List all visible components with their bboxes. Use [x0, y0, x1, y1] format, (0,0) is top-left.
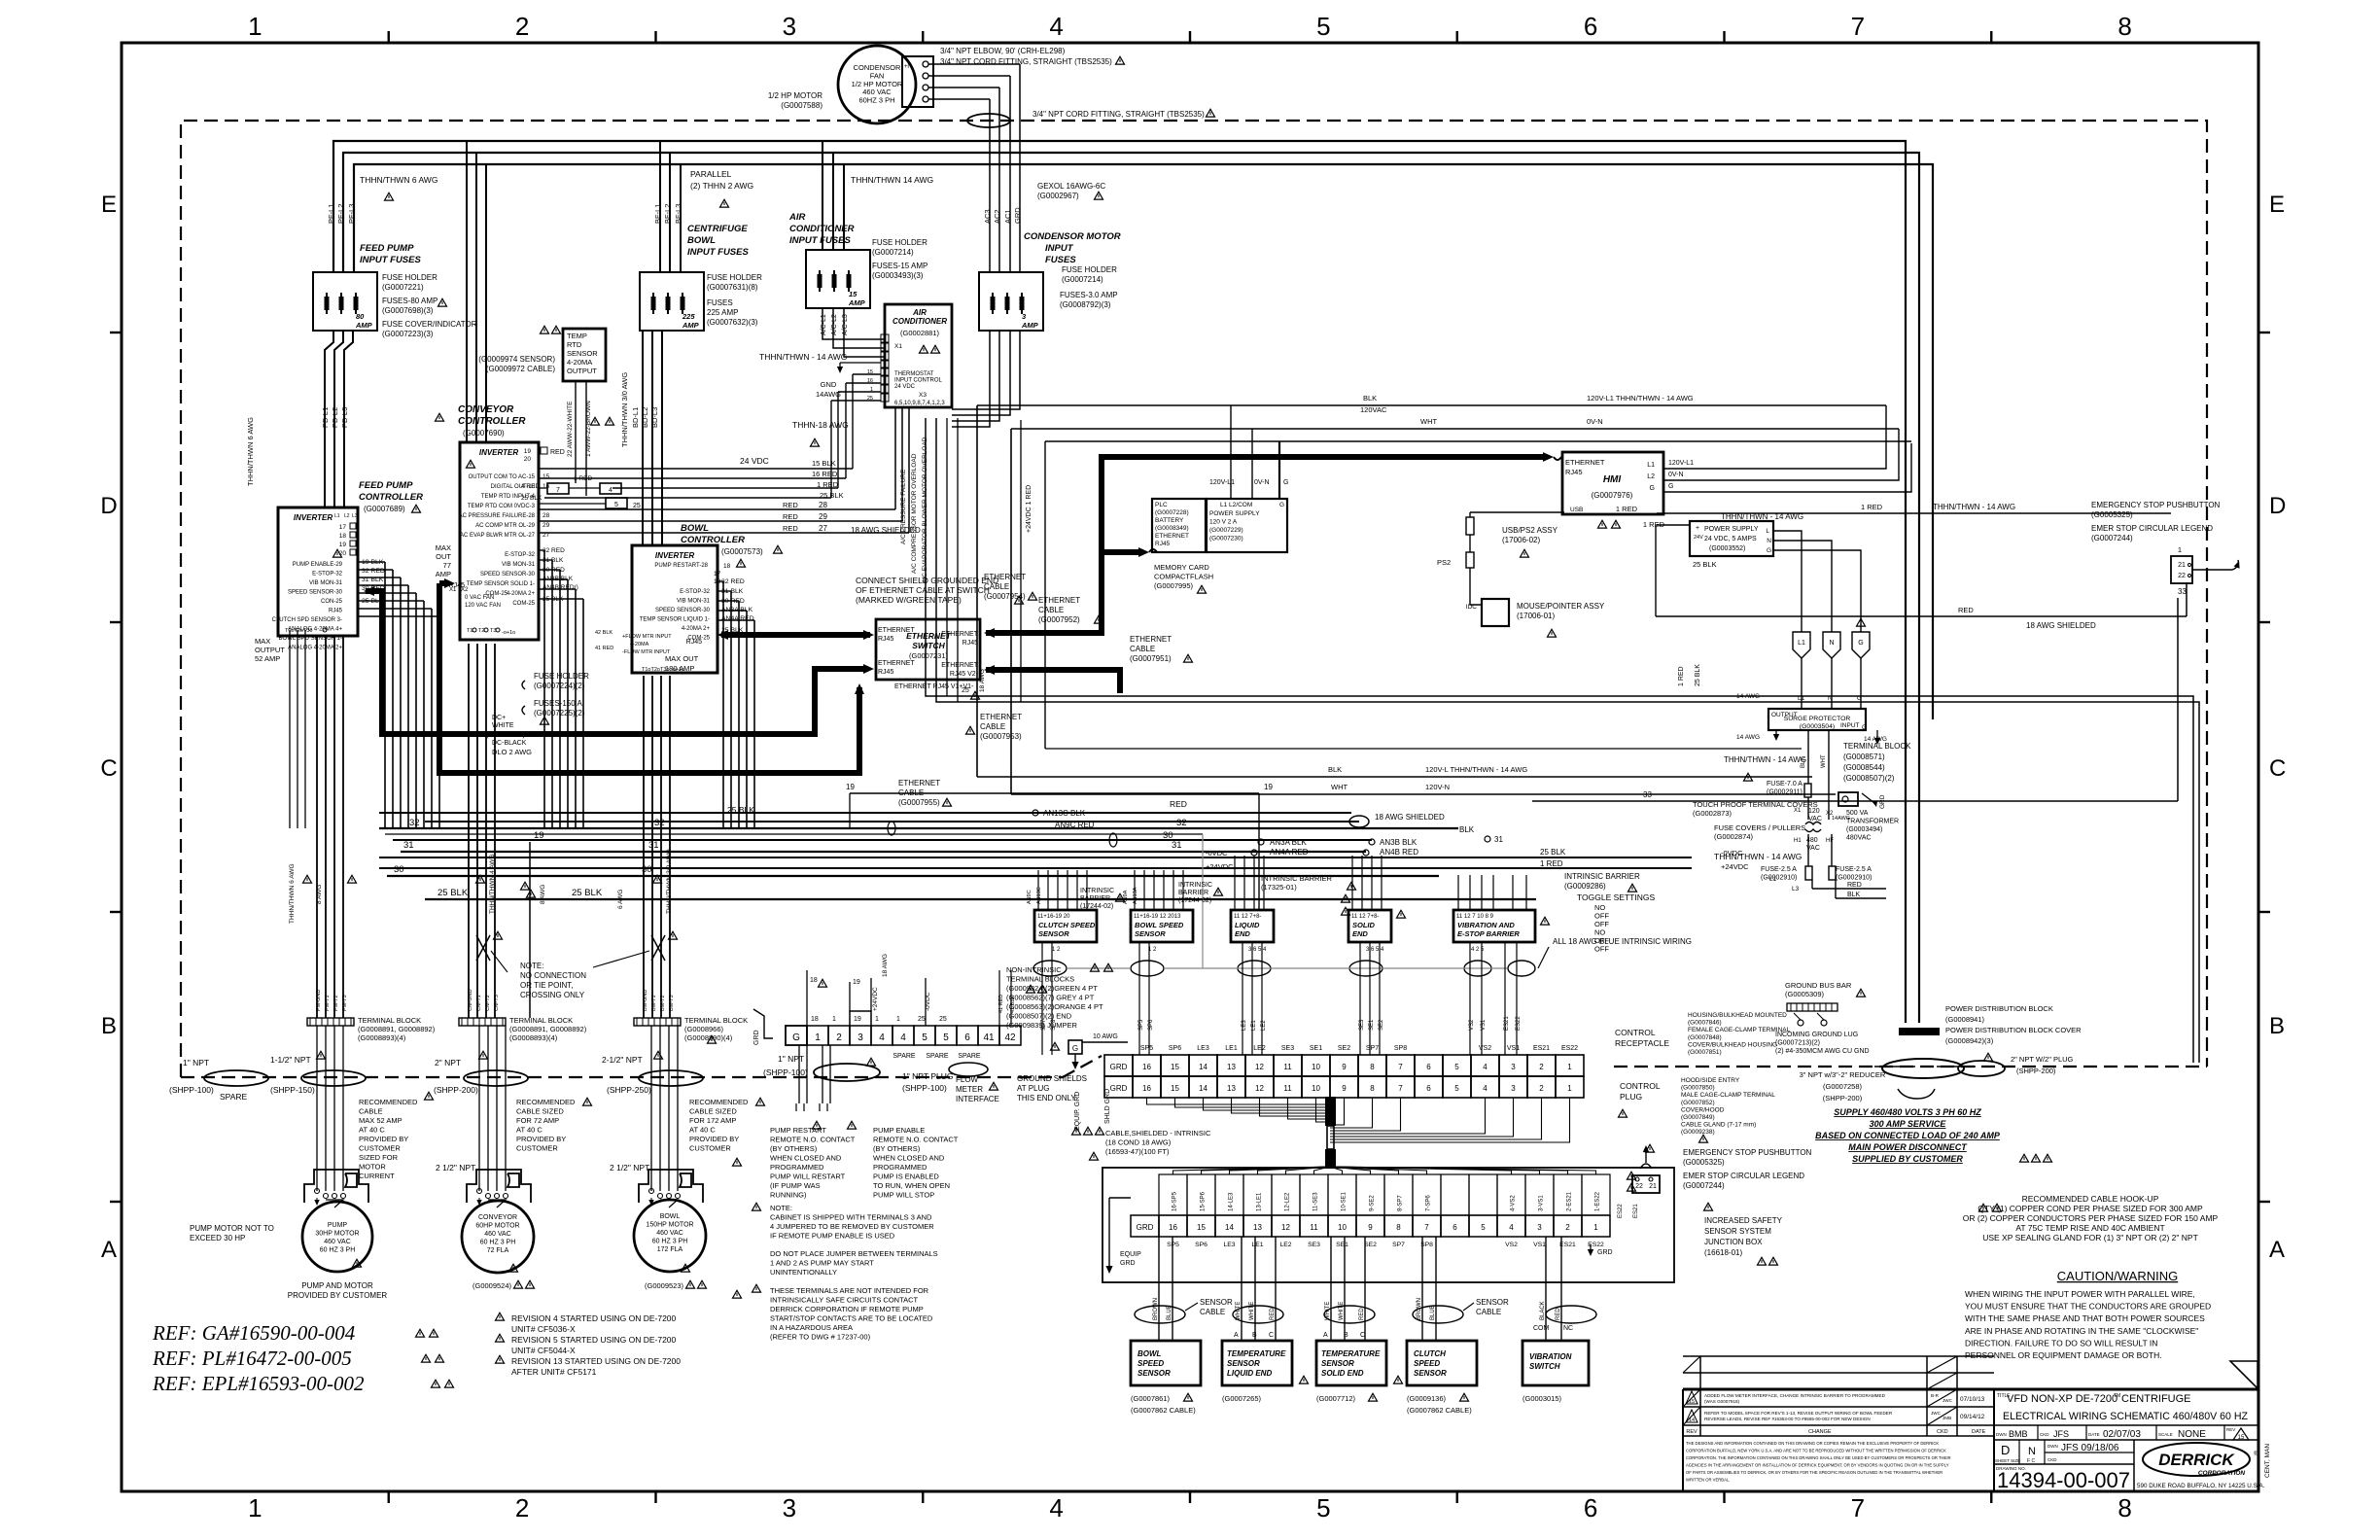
svg-text:(G0007229): (G0007229): [1209, 527, 1243, 534]
svg-text:T1oT2oT3o -o+1o: T1oT2oT3o -o+1o: [642, 667, 684, 673]
svg-text:2-1/2" NPT: 2-1/2" NPT: [602, 1055, 643, 1065]
svg-text:31: 31: [1494, 835, 1503, 844]
svg-text:SP7: SP7: [1392, 1242, 1405, 1248]
svg-text:OR (2) COPPER CONDUCTORS PER P: OR (2) COPPER CONDUCTORS PER PHASE SIZED…: [1963, 1213, 2219, 1223]
svg-text:VIB MON-31: VIB MON-31: [502, 562, 536, 568]
svg-text:INPUT FUSES: INPUT FUSES: [687, 247, 749, 258]
svg-text:SPARE: SPARE: [926, 1053, 949, 1060]
svg-text:1 RED: 1 RED: [1678, 666, 1685, 686]
svg-text:CORPORATION: CORPORATION: [2198, 1470, 2246, 1477]
wire RTD leads: [575, 381, 577, 483]
svg-text:FUSES: FUSES: [707, 298, 733, 307]
wire condenser fuse outputs: [952, 331, 990, 427]
svg-text:JFS 09/18/06: JFS 09/18/06: [2061, 1443, 2119, 1453]
svg-text:4-20MA: 4-20MA: [630, 642, 649, 647]
svg-text:(G0008893)(4): (G0008893)(4): [358, 1033, 406, 1042]
svg-text:RJ45: RJ45: [329, 609, 343, 614]
svg-text:(G0007976): (G0007976): [1592, 491, 1633, 500]
svg-text:AC PRESSURE FAILURE-28: AC PRESSURE FAILURE-28: [459, 513, 536, 519]
svg-text:2" NPT: 2" NPT: [435, 1058, 461, 1067]
svg-text:5: 5: [922, 1032, 927, 1043]
svg-text:(G0003015): (G0003015): [1522, 1394, 1562, 1403]
svg-text:REV: REV: [2226, 1427, 2235, 1432]
feed pump controller inverter U5: [278, 507, 358, 636]
svg-text:120V-L THHN/THWN - 14 AWG: 120V-L THHN/THWN - 14 AWG: [1425, 765, 1527, 774]
svg-text:RTD: RTD: [567, 340, 582, 349]
svg-text:WHEN WIRING THE INPUT POWER WI: WHEN WIRING THE INPUT POWER WITH PARALLE…: [1965, 1289, 2195, 1299]
wires into G strip: [806, 970, 808, 1026]
fuse holder air conditioner input fuses F3: [806, 250, 870, 308]
svg-text:DERRICK: DERRICK: [2158, 1451, 2235, 1469]
svg-text:THHN/THWN 6 AWG: THHN/THWN 6 AWG: [289, 863, 296, 924]
svg-text:1: 1: [1593, 1223, 1598, 1232]
svg-text:RED: RED: [1170, 799, 1187, 809]
svg-text:3-VS1: 3-VS1: [1539, 1195, 1545, 1211]
svg-text:14-LE3: 14-LE3: [1229, 1192, 1235, 1211]
wire conveyor feeder drop: [466, 141, 468, 442]
svg-text:SENSOR: SENSOR: [1200, 1298, 1233, 1307]
svg-text:ES21: ES21: [1559, 1242, 1576, 1248]
svg-text:1-1/2" NPT: 1-1/2" NPT: [270, 1055, 311, 1065]
svg-text:LE2: LE2: [1279, 1242, 1291, 1248]
svg-text:PD-L2: PD-L2: [331, 407, 339, 428]
svg-text:WHT: WHT: [1331, 783, 1347, 791]
svg-text:(G0007223)(3): (G0007223)(3): [382, 330, 434, 338]
svg-text:AMP: AMP: [848, 298, 866, 307]
wire A/C aux verticals: [946, 418, 948, 696]
svg-text:N: N: [2028, 1446, 2036, 1457]
svg-text:G: G: [1072, 1044, 1078, 1053]
2 NPT plug ellipse: [1958, 1061, 2005, 1076]
ethernet cable stub to PLC RJ45: [1102, 549, 1143, 555]
svg-text:24 VDC, 5 AMPS: 24 VDC, 5 AMPS: [1704, 536, 1757, 542]
wire mid horizontal buses: [379, 812, 1351, 814]
wire PD feeder to feed pump controller: [325, 331, 333, 507]
svg-text:DIGITAL OUT-18: DIGITAL OUT-18: [491, 484, 536, 490]
svg-text:(G0007214): (G0007214): [1062, 275, 1103, 284]
svg-text:14: 14: [1225, 1223, 1234, 1232]
svg-text:C: C: [2269, 755, 2286, 782]
svg-text:3/4" NPT CORD FITTING, STRAIGH: 3/4" NPT CORD FITTING, STRAIGHT (TBS2535…: [1032, 110, 1205, 119]
svg-text:11: 11: [1310, 1223, 1318, 1232]
svg-text:AN13C BLK: AN13C BLK: [1043, 809, 1086, 818]
svg-text:CM-T2: CM-T2: [485, 995, 491, 1011]
svg-text:PUMP ENABLE-29: PUMP ENABLE-29: [293, 562, 343, 568]
wire HMI 120V feed: [1663, 405, 1886, 469]
svg-text:3/4" NPT CORD FITTING, STRAIGH: 3/4" NPT CORD FITTING, STRAIGHT (TBS2535…: [940, 57, 1112, 66]
svg-text:(G0009238): (G0009238): [1681, 1129, 1715, 1136]
svg-text:PROVIDED BY CUSTOMER: PROVIDED BY CUSTOMER: [288, 1291, 388, 1300]
svg-text:PARALLEL: PARALLEL: [690, 169, 732, 179]
svg-text:590 DUKE ROAD BUFFALO, NY 1422: 590 DUKE ROAD BUFFALO, NY 14225 U.S.A.: [2137, 1483, 2265, 1489]
svg-text:120 VAC FAN: 120 VAC FAN: [465, 603, 501, 609]
air conditioner unit U2: [885, 304, 952, 407]
svg-text:(G0008507)(2): (G0008507)(2): [1843, 774, 1895, 783]
svg-text:C: C: [100, 755, 117, 782]
svg-text:25 BLK: 25 BLK: [820, 491, 844, 500]
motor connection box: [639, 1170, 703, 1203]
svg-text:2 1/2" NPT: 2 1/2" NPT: [610, 1163, 649, 1172]
svg-text:500 VA: 500 VA: [1846, 810, 1869, 817]
svg-text:(G0007851): (G0007851): [1688, 1049, 1722, 1056]
svg-text:25 BLK: 25 BLK: [1695, 664, 1701, 686]
wire barrier drops to buses: [1037, 870, 1039, 910]
svg-text:RED: RED: [783, 512, 798, 521]
svg-text:(IF PUMP WAS: (IF PUMP WAS: [770, 1181, 821, 1190]
svg-text:SCALE: SCALE: [2158, 1432, 2173, 1437]
svg-text:(SHPP-100): (SHPP-100): [169, 1085, 214, 1095]
svg-text:120 V 2 A: 120 V 2 A: [1209, 519, 1238, 526]
svg-text:52 AMP: 52 AMP: [255, 654, 280, 663]
ethernet cable G0007953 (thick): [366, 591, 868, 734]
bowl motor M4: [634, 1200, 706, 1272]
svg-text:32 RED: 32 RED: [362, 568, 385, 575]
wire bowl feeder drop: [659, 141, 661, 272]
svg-text:16 RED: 16 RED: [812, 470, 838, 478]
svg-text:CKD: CKD: [1937, 1429, 1948, 1435]
svg-text:BOWL: BOWL: [681, 523, 709, 534]
svg-text:L1: L1: [1647, 462, 1655, 469]
svg-text:BM-T1: BM-T1: [651, 996, 657, 1012]
svg-text:(G0009974 SENSOR): (G0009974 SENSOR): [478, 355, 555, 364]
svg-text:GROUND SHIELDS: GROUND SHIELDS: [1017, 1074, 1087, 1083]
svg-text:PUMP: PUMP: [328, 1222, 348, 1229]
svg-text:(G0007689): (G0007689): [364, 505, 405, 513]
svg-text:6: 6: [964, 1032, 970, 1043]
ethernet cable G0007954 (thick): [721, 632, 870, 638]
svg-text:FUSE-2.5 A: FUSE-2.5 A: [1836, 866, 1872, 873]
svg-text:BLACK: BLACK: [1540, 1301, 1546, 1320]
svg-text:SP8: SP8: [1394, 1045, 1407, 1052]
svg-text:CUSTOMER: CUSTOMER: [359, 1144, 401, 1153]
svg-text:(G0002874): (G0002874): [1714, 832, 1754, 841]
svg-text:NOTE:: NOTE:: [770, 1204, 792, 1212]
svg-text:PUMP AND MOTOR: PUMP AND MOTOR: [301, 1281, 373, 1290]
svg-text:(G0002910): (G0002910): [1761, 875, 1797, 882]
wire 460V feeder bus L1: [333, 141, 1906, 1023]
svg-text:RECEPTACLE: RECEPTACLE: [1615, 1038, 1669, 1048]
svg-text:11: 11: [1283, 1084, 1292, 1093]
svg-text:5: 5: [1454, 1063, 1459, 1071]
svg-text:BD-L1: BD-L1: [631, 407, 640, 428]
terminal blocks above motors TB4 TB5 TB6: [307, 1018, 354, 1026]
svg-text:SENSOR: SENSOR: [1137, 1369, 1171, 1378]
svg-text:60 HZ 3 PH: 60 HZ 3 PH: [652, 1239, 688, 1245]
svg-text:(G0007228): (G0007228): [1155, 509, 1189, 516]
svg-text:FUSE HOLDER: FUSE HOLDER: [707, 273, 762, 282]
jumper 3-4: [850, 1011, 871, 1026]
svg-text:PM-T1: PM-T1: [325, 996, 331, 1012]
svg-text:6: 6: [1426, 1063, 1431, 1071]
svg-text:(G0007631)(8): (G0007631)(8): [707, 283, 758, 292]
sensor cable ovals: [1135, 1306, 1185, 1323]
svg-text:4-20MA 2+: 4-20MA 2+: [682, 626, 711, 632]
svg-text:INVERTER: INVERTER: [655, 551, 695, 560]
svg-text:(G0003493)(3): (G0003493)(3): [872, 271, 924, 280]
svg-text:POWER SUPPLY: POWER SUPPLY: [1704, 526, 1759, 533]
svg-text:25 BLK: 25 BLK: [1693, 560, 1717, 569]
svg-text:F C: F C: [2027, 1458, 2035, 1464]
svg-text:BM-T2: BM-T2: [660, 996, 666, 1012]
svg-text:PUMP WILL STOP: PUMP WILL STOP: [873, 1191, 934, 1200]
svg-text:OF ETHERNET CABLE AT SWITCH: OF ETHERNET CABLE AT SWITCH: [856, 585, 990, 595]
svg-text:DIRECTION. FAILURE TO DO SO W: DIRECTION. FAILURE TO DO SO WILL RESULT …: [1965, 1338, 2157, 1347]
incoming ground lug: [1798, 1020, 1803, 1026]
motor connection box: [304, 1170, 368, 1203]
svg-text:EQUIP. GRD: EQUIP. GRD: [1074, 1092, 1081, 1131]
svg-text:X3: X3: [919, 392, 927, 399]
svg-text:CON-25: CON-25: [321, 599, 343, 605]
svg-text:A/C-L2: A/C-L2: [831, 314, 838, 335]
svg-text:(G0005309): (G0005309): [1785, 990, 1825, 998]
svg-text:11-SE3: 11-SE3: [1313, 1192, 1319, 1211]
svg-text:CABLE SIZED: CABLE SIZED: [516, 1107, 564, 1116]
svg-text:JUNCTION BOX: JUNCTION BOX: [1704, 1238, 1763, 1246]
svg-text:SE3: SE3: [1359, 1019, 1365, 1031]
svg-text:5: 5: [614, 502, 618, 508]
svg-text:CABINET IS SHIPPED WITH TERMIN: CABINET IS SHIPPED WITH TERMINALS 3 AND: [770, 1213, 932, 1222]
svg-text:SP7: SP7: [1366, 1045, 1379, 1052]
svg-text:+FLOW MTR INPUT: +FLOW MTR INPUT: [622, 634, 672, 640]
svg-text:TOGGLE SETTINGS: TOGGLE SETTINGS: [1577, 892, 1655, 902]
svg-text:AN9C RED: AN9C RED: [1055, 821, 1095, 829]
svg-text:(G0008349): (G0008349): [1155, 525, 1189, 532]
svg-text:3: 3: [783, 1493, 796, 1522]
svg-text:(17006-01): (17006-01): [1517, 612, 1555, 620]
svg-text:(G0009136): (G0009136): [1407, 1394, 1447, 1403]
svg-text:ES21: ES21: [1633, 1204, 1639, 1218]
svg-text:EMER STOP CIRCULAR LEGEND: EMER STOP CIRCULAR LEGEND: [1683, 1172, 1804, 1180]
svg-text:WHT: WHT: [1821, 754, 1827, 768]
svg-text:14: 14: [1689, 1417, 1695, 1423]
svg-text:8: 8: [1396, 1223, 1401, 1232]
svg-text:GRD: GRD: [1879, 794, 1886, 809]
svg-text:(G0007573): (G0007573): [721, 547, 763, 556]
svg-text:77: 77: [443, 561, 451, 570]
svg-text:AC3: AC3: [983, 209, 992, 224]
svg-text:SE3: SE3: [1308, 1242, 1320, 1248]
svg-text:32 RED: 32 RED: [721, 578, 745, 585]
svg-text:AN13C: AN13C: [1036, 887, 1042, 904]
svg-text:X1: X1: [1794, 808, 1802, 814]
svg-text:CONTROL: CONTROL: [1620, 1081, 1661, 1091]
svg-text:AC1: AC1: [1003, 209, 1012, 224]
svg-text:19: 19: [1264, 783, 1273, 791]
svg-text:CONTROLLER: CONTROLLER: [681, 535, 745, 545]
svg-text:41 RED: 41 RED: [595, 646, 613, 651]
svg-text:VS1: VS1: [1507, 1045, 1520, 1052]
svg-text:JWC: JWC: [1942, 1398, 1953, 1403]
svg-text:MOUSE/POINTER ASSY: MOUSE/POINTER ASSY: [1517, 602, 1605, 611]
svg-text:CONDENSOR MOTOR: CONDENSOR MOTOR: [1024, 231, 1121, 242]
svg-text:1: 1: [832, 1016, 836, 1023]
svg-text:5: 5: [1316, 12, 1330, 41]
svg-text:CABLE: CABLE: [1200, 1308, 1225, 1316]
svg-text:1: 1: [2178, 545, 2182, 554]
svg-text:CLUTCH SPEED: CLUTCH SPEED: [1038, 921, 1096, 929]
svg-text:5: 5: [1454, 1084, 1459, 1093]
svg-text:INVERTER: INVERTER: [294, 513, 333, 522]
svg-text:FUSE HOLDER: FUSE HOLDER: [872, 238, 927, 247]
svg-text:15: 15: [849, 290, 857, 298]
svg-text:NO CONNECTION: NO CONNECTION: [520, 971, 586, 980]
svg-text:BOWL: BOWL: [660, 1213, 681, 1220]
intrinsic barrier solid end U16: [1348, 910, 1391, 942]
svg-text:09/14/12: 09/14/12: [1960, 1414, 1985, 1420]
svg-text:REVISION 4 STARTED USING ON DE: REVISION 4 STARTED USING ON DE-7200: [511, 1313, 677, 1323]
svg-text:GROUND BUS BAR: GROUND BUS BAR: [1785, 981, 1852, 990]
svg-text:FUSES-15 AMP: FUSES-15 AMP: [872, 262, 927, 270]
svg-text:PROGRAMMED: PROGRAMMED: [770, 1163, 824, 1172]
svg-text:C: C: [1360, 1332, 1365, 1339]
svg-text:BASED ON CONNECTED LOAD OF 240: BASED ON CONNECTED LOAD OF 240 AMP: [1815, 1131, 2001, 1140]
temp RTD sensor U3: [563, 329, 606, 381]
svg-text:DERRICK CORPORATION IF REMOTE: DERRICK CORPORATION IF REMOTE PUMP: [770, 1305, 924, 1313]
svg-text:JFS: JFS: [2053, 1429, 2069, 1439]
svg-text:INTERFACE: INTERFACE: [956, 1095, 999, 1103]
emergency stop contact box 22/21: [1632, 1175, 1660, 1193]
mouse/pointer assembly: [1482, 599, 1509, 626]
svg-text:RED: RED: [1958, 606, 1974, 614]
svg-text:0 VAC FAN: 0 VAC FAN: [465, 595, 494, 601]
condenser fan motor M1: [838, 46, 916, 123]
title block: [1683, 1388, 2258, 1391]
svg-text:7: 7: [1398, 1063, 1403, 1071]
svg-text:80: 80: [356, 312, 365, 321]
svg-text:2: 2: [1565, 1223, 1570, 1232]
svg-text:CORPORATION BUFFALO, NEW YORK: CORPORATION BUFFALO, NEW YORK U.S.A. AND…: [1686, 1449, 1946, 1453]
svg-text:(G0008891, G0008892): (G0008891, G0008892): [509, 1025, 587, 1033]
svg-text:CUSTOMER: CUSTOMER: [689, 1144, 731, 1153]
wire fan leads: [928, 63, 1020, 65]
svg-text:COVER/BULKHEAD HOUSING: COVER/BULKHEAD HOUSING: [1688, 1041, 1777, 1048]
svg-text:GEXOL 16AWG-6C: GEXOL 16AWG-6C: [1037, 182, 1105, 191]
svg-text:460 VAC: 460 VAC: [484, 1231, 511, 1238]
svg-text:SOLID: SOLID: [1352, 921, 1376, 929]
svg-text:18: 18: [810, 977, 818, 984]
wire 18AWG shielded RED to estop: [1656, 615, 2187, 617]
svg-text:(G0008893)(4): (G0008893)(4): [509, 1033, 558, 1042]
svg-text:C: C: [1269, 1332, 1274, 1339]
svg-text:BF-L2: BF-L2: [663, 204, 672, 224]
svg-text:LE3: LE3: [1223, 1242, 1235, 1248]
svg-text:4-20MA: 4-20MA: [567, 358, 592, 367]
svg-text:CM-T1: CM-T1: [476, 995, 482, 1011]
svg-text:CABLE: CABLE: [1130, 645, 1155, 653]
svg-text:EMERGENCY STOP PUSHBUTTON: EMERGENCY STOP PUSHBUTTON: [2091, 501, 2221, 509]
svg-text:PLUG: PLUG: [1620, 1092, 1642, 1102]
svg-text:(G0002873): (G0002873): [1693, 809, 1732, 818]
svg-text:CURRENT: CURRENT: [359, 1172, 395, 1180]
svg-text:25 BLK: 25 BLK: [572, 888, 603, 898]
svg-text:(G0003494): (G0003494): [1846, 826, 1882, 833]
svg-text:CLUTCH SPD SENSOR 3-: CLUTCH SPD SENSOR 3-: [272, 617, 342, 623]
svg-text:3" NPT w/3"-2" REDUCER: 3" NPT w/3"-2" REDUCER: [1800, 1070, 1886, 1079]
svg-text:25: 25: [962, 687, 969, 694]
svg-text:MAX: MAX: [255, 637, 270, 646]
svg-text:START/STOP CONTACTS ARE TO BE: START/STOP CONTACTS ARE TO BE LOCATED: [770, 1314, 933, 1323]
svg-text:SENSOR: SENSOR: [567, 349, 598, 358]
svg-text:CLUTCH: CLUTCH: [1414, 1349, 1446, 1358]
svg-text:FOR 72 AMP: FOR 72 AMP: [516, 1116, 559, 1125]
svg-text:CABLE: CABLE: [984, 582, 1009, 591]
svg-text:PS2: PS2: [1437, 558, 1451, 567]
svg-text:DO NOT PLACE JUMPER BETWEEN TE: DO NOT PLACE JUMPER BETWEEN TERMINALS: [770, 1249, 938, 1258]
svg-text:5: 5: [1481, 1223, 1486, 1232]
svg-text:LIQUID END: LIQUID END: [1227, 1369, 1272, 1378]
NPT ellipses on boundary: [204, 1070, 268, 1086]
svg-text:225: 225: [682, 312, 695, 321]
svg-text:CONVEYOR: CONVEYOR: [478, 1214, 517, 1221]
svg-text:(G0007849): (G0007849): [1681, 1114, 1715, 1121]
svg-text:AT 75C TEMP RISE AND 40C AMBIE: AT 75C TEMP RISE AND 40C AMBIENT: [2015, 1223, 2164, 1233]
svg-text:RJ45 V2-: RJ45 V2-: [950, 671, 979, 678]
svg-text:END: END: [1235, 929, 1250, 938]
svg-text:12: 12: [1255, 1084, 1264, 1093]
svg-text:ETHERNET: ETHERNET: [878, 660, 915, 667]
svg-text:+: +: [1696, 525, 1699, 532]
svg-text:2: 2: [836, 1032, 842, 1043]
svg-text:METER: METER: [956, 1085, 983, 1094]
svg-text:(2) THHN 2 AWG: (2) THHN 2 AWG: [690, 181, 753, 191]
svg-text:PROGRAMMED: PROGRAMMED: [873, 1163, 927, 1172]
svg-text:2: 2: [1539, 1084, 1544, 1093]
svg-text:13: 13: [1227, 1063, 1236, 1071]
svg-text:QTY (1) COPPER COND PER PHASE: QTY (1) COPPER COND PER PHASE SIZED FOR …: [1977, 1204, 2203, 1213]
svg-text:22: 22: [2178, 573, 2186, 579]
svg-text:4: 4: [609, 487, 612, 494]
svg-text:AIR: AIR: [788, 212, 806, 223]
svg-text:8 AWG: 8 AWG: [316, 885, 323, 904]
svg-text:TEMPERATURE: TEMPERATURE: [1321, 1349, 1381, 1358]
svg-text:REVISION 5 STARTED USING ON DE: REVISION 5 STARTED USING ON DE-7200: [511, 1335, 677, 1345]
svg-text:SENSOR: SENSOR: [1414, 1369, 1447, 1378]
condenser fan terminal box: [902, 56, 933, 107]
svg-text:PUMP IS ENABLED: PUMP IS ENABLED: [873, 1172, 939, 1181]
svg-text:REFER TO MODEL SPACE FOR REV'S: REFER TO MODEL SPACE FOR REV'S 1-13, REV…: [1704, 1411, 1893, 1416]
svg-text:OUTPUT: OUTPUT: [567, 367, 597, 375]
svg-text:18 AWG: 18 AWG: [882, 954, 889, 977]
svg-text:(G0009839) JUMPER: (G0009839) JUMPER: [1006, 1021, 1078, 1030]
svg-text:RUNNING): RUNNING): [770, 1191, 807, 1200]
svg-text:0V-N: 0V-N: [1668, 472, 1684, 478]
svg-text:BATTERY: BATTERY: [1155, 517, 1184, 524]
svg-text:CONTROL: CONTROL: [1615, 1028, 1656, 1037]
svg-text:FUSE-7.0 A: FUSE-7.0 A: [1767, 781, 1802, 787]
svg-text:RECOMMENDED: RECOMMENDED: [516, 1098, 576, 1106]
svg-text:CABLE GLAND (7-17 mm): CABLE GLAND (7-17 mm): [1681, 1122, 1756, 1129]
svg-text:THHN/THWN 4 AWG: THHN/THWN 4 AWG: [489, 854, 496, 914]
svg-text:LE1: LE1: [1251, 1242, 1263, 1248]
svg-text:LE1: LE1: [1251, 1020, 1257, 1031]
svg-text:SOLID END: SOLID END: [1321, 1369, 1364, 1378]
svg-text:YOU MUST ENSURE THAT THE CONDU: YOU MUST ENSURE THAT THE CONDUCTORS ARE …: [1965, 1302, 2211, 1312]
svg-text:21: 21: [1649, 1183, 1657, 1190]
svg-text:AC COMP MTR OL-29: AC COMP MTR OL-29: [475, 523, 536, 529]
svg-text:CABLE: CABLE: [1038, 606, 1064, 614]
svg-text:RECOMMENDED CABLE HOOK-UP: RECOMMENDED CABLE HOOK-UP: [2022, 1194, 2159, 1204]
temperature sensor liquid end S2: [1222, 1341, 1292, 1385]
svg-text:(G0007954): (G0007954): [984, 592, 1026, 601]
svg-text:(16593-47)(100 FT): (16593-47)(100 FT): [1105, 1147, 1170, 1156]
svg-text:19: 19: [846, 783, 855, 791]
svg-text:6: 6: [1452, 1223, 1457, 1232]
svg-text:20: 20: [524, 456, 532, 463]
svg-text:5: 5: [1316, 1493, 1330, 1522]
svg-text:SENSOR: SENSOR: [1135, 929, 1166, 938]
svg-text:RED: RED: [1359, 1308, 1365, 1320]
svg-text:CONDITIONER: CONDITIONER: [892, 317, 947, 326]
